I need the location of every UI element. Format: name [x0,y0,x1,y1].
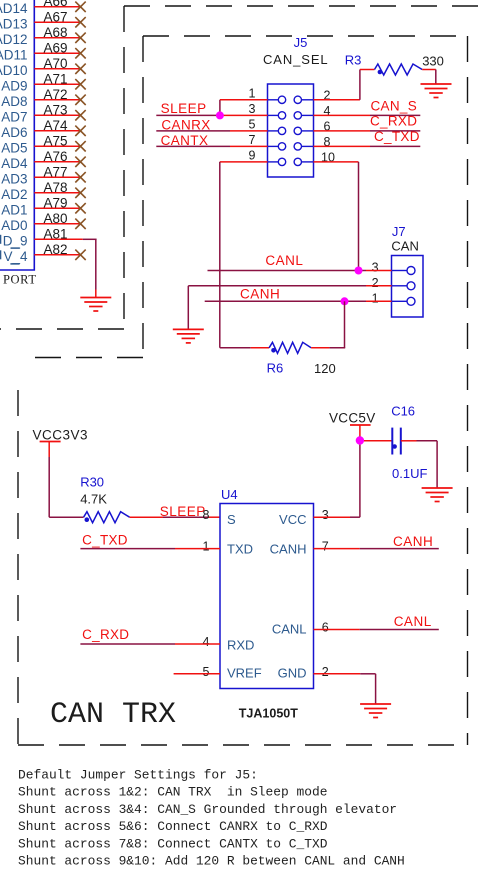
section title CAN TRX [50,698,176,732]
svg-text:C_RXD: C_RXD [370,114,417,129]
no-connect X on A69 [75,48,85,58]
wire CANH from U4 pin 7 [314,548,439,550]
wire pin A73 no-connect stub [34,114,80,116]
svg-text:AD14: AD14 [0,1,28,16]
svg-text:AD7: AD7 [1,109,27,124]
no-connect X on A80 [75,219,85,229]
pin number 6 of J5 [324,119,331,133]
wire J5 pin 2 up to R3 [314,70,375,100]
svg-text:Default Jumper Settings for J5: Default Jumper Settings for J5: [18,768,258,783]
svg-text:1: 1 [249,87,256,101]
wire pin A77 no-connect stub [34,176,80,178]
U4 pin name VREF [227,666,262,681]
svg-text:C_TXD: C_TXD [82,533,128,548]
wire CANH junction down to R6 [344,301,346,348]
wire C_TXD to U4 TXD [80,548,220,550]
svg-text:V_4: V_4 [3,249,28,264]
net label C_TXD [374,129,420,144]
svg-text:8: 8 [203,508,210,522]
wire VCC5V down to U4 VCC [314,436,360,517]
wire R30 to U4 pin S [130,516,220,518]
pin number label A81 [43,226,67,241]
net label CANH at U4 [393,534,433,549]
resistor R6 [269,342,311,353]
section border: outer CAN block top edge [124,5,490,7]
wire pin A67 no-connect stub [34,21,80,23]
wire SLEEP to J5 pins 1 and 3 [156,100,267,116]
pin number label A72 [43,87,67,102]
wire CANTX to J5 pin 7 [156,145,267,147]
section border: right edge shared by CAN_SEL and CAN TRX blocks [467,36,469,745]
label PORT [3,273,37,287]
wire CANRX to J5 pin 5 [156,130,267,132]
connector J7 body [392,256,424,318]
wire CANL from U4 pin 6 [314,629,439,631]
svg-text:A69: A69 [43,40,67,55]
net label CANRX [161,117,210,132]
svg-text:4: 4 [203,635,210,649]
ground at U4 GND [360,704,391,718]
U4 value TJA1050T [239,707,298,721]
svg-text:J5: J5 [294,35,308,50]
pin name AD11 (PORT pin A69) [0,47,28,62]
svg-text:Shunt across 5&6: Connect CANR: Shunt across 5&6: Connect CANRX to C_RXD [18,819,328,834]
wire pin A72 no-connect stub [34,99,80,101]
svg-text:AD10: AD10 [0,63,28,78]
U4 pin name CANL [272,622,307,637]
svg-text:PORT: PORT [3,273,37,287]
svg-text:A71: A71 [43,71,67,86]
pin number 1 of J5 [249,87,256,101]
section border: outer CAN block left edge [123,6,125,329]
svg-text:S: S [227,512,236,527]
svg-text:A66: A66 [43,0,67,9]
resistor R30 designator [80,475,104,490]
power symbol VCC3V3 [33,428,89,458]
svg-text:3: 3 [372,261,379,275]
wire pin A68 no-connect stub [34,37,80,39]
svg-text:A82: A82 [43,242,67,257]
svg-text:Shunt across 7&8: Connect CANT: Shunt across 7&8: Connect CANTX to C_TXD [18,836,328,851]
svg-text:VCC: VCC [279,512,306,527]
capacitor C16 [392,428,401,455]
net label C_RXD at U4 [82,627,129,642]
svg-text:CANH: CANH [270,542,307,557]
wire CANL to J7 pin 3 [208,270,392,272]
svg-text:GND: GND [278,666,307,681]
svg-text:R3: R3 [345,53,362,68]
U4 pin name RXD [227,638,254,653]
net label SLEEP [161,101,207,116]
svg-text:AD11: AD11 [0,47,28,62]
stray clipped label underscore below 3V_4 [10,263,19,265]
svg-text:CANRX: CANRX [161,117,210,132]
svg-text:A81: A81 [43,226,67,241]
resistor R3 value 330 [422,54,444,69]
svg-text:2: 2 [322,665,329,679]
power symbol VCC5V [329,411,376,437]
connector J7 value CAN [391,239,418,254]
section border: outer CAN block bottom edge [0,328,124,330]
section border: inner CAN_SEL block bottom edge [31,357,143,359]
net label C_RXD [370,114,417,129]
junction dot SLEEP [216,111,224,119]
pin name AD14 (PORT pin A66) [0,1,28,16]
pin number 3 of U4 [322,508,329,522]
svg-text:AD4: AD4 [1,156,28,171]
ground at R3 [421,84,452,98]
ground at C16 [422,488,453,502]
wire pin A79 no-connect stub [34,207,80,209]
pin number label A76 [43,149,67,164]
svg-text:A68: A68 [43,25,67,40]
pin name AD5 (PORT pin A75) [1,140,27,155]
svg-text:0.1UF: 0.1UF [392,466,427,481]
svg-text:A79: A79 [43,195,67,210]
resistor R30 value 4.7K [80,492,107,507]
svg-text:CAN_S: CAN_S [371,98,418,113]
pin name AD6 (PORT pin A74) [1,125,27,140]
ground at J7 pin 2 [173,329,204,343]
resistor R3 [375,64,423,75]
pin name AD7 (PORT pin A73) [1,109,27,124]
section border: CAN TRX block left edge [17,390,19,745]
wire pin A80 no-connect stub [34,223,80,225]
svg-text:1: 1 [203,540,210,554]
no-connect X on A78 [75,188,85,198]
svg-text:2: 2 [372,276,379,290]
svg-text:AD0: AD0 [1,218,27,233]
pin number 1 of U4 [203,540,210,554]
no-connect X on A79 [75,203,85,213]
no-connect X on A76 [75,157,85,167]
pin number label A79 [43,195,67,210]
svg-text:3: 3 [249,102,256,116]
section border: CAN TRX block bottom edge [18,744,468,746]
svg-text:5: 5 [249,118,256,132]
svg-text:A74: A74 [43,118,68,133]
svg-text:D_9: D_9 [3,233,28,248]
connector J5 designator [294,35,308,50]
pin number 9 of J5 [249,149,256,163]
pin number label A73 [43,102,67,117]
svg-text:3: 3 [322,508,329,522]
no-connect X on A74 [75,126,85,136]
svg-text:A67: A67 [43,9,67,24]
svg-text:A80: A80 [43,211,67,226]
wire VCC3V3 down to R30 [49,457,83,517]
pin number 2 of U4 [322,665,329,679]
wire pin A82 no-connect stub [34,254,80,256]
svg-text:CAN TRX: CAN TRX [50,698,176,732]
pin number label A67 [43,9,67,24]
U4 pin name GND [278,666,307,681]
svg-text:AD9: AD9 [1,78,27,93]
svg-text:VCC5V: VCC5V [329,411,376,426]
ground below PORT [80,298,111,312]
svg-text:Shunt across 9&10: Add 120 R b: Shunt across 9&10: Add 120 R between CAN… [18,854,405,869]
no-connect X on A66 [75,2,85,12]
net label CANTX [161,133,209,148]
svg-text:AD1: AD1 [1,202,27,217]
wire R6 right leg [311,347,345,349]
pin number label A78 [43,180,67,195]
U4 pin name VCC [279,512,306,527]
wire J7 pin 2 to ground [188,286,391,330]
pin name AD4 (PORT pin A76) [1,156,28,171]
pin number 2 of J7 [372,276,379,290]
pin name AD13 (PORT pin A67) [0,16,28,31]
wire C_TXD from J5 pin 8 [314,145,421,147]
resistor R6 designator [267,361,284,376]
connector PORT body [0,0,34,270]
capacitor C16 designator [391,404,415,419]
svg-text:AD13: AD13 [0,16,28,31]
pin number 4 of U4 [203,635,210,649]
pin name AD12 (PORT pin A68) [0,32,28,47]
svg-text:CANH: CANH [393,534,433,549]
resistor R30 [84,512,130,523]
pin name AD10 (PORT pin A70) [0,63,28,78]
wire pin A66 no-connect stub [34,6,80,8]
wire pin A78 no-connect stub [34,192,80,194]
svg-text:AD2: AD2 [1,187,27,202]
pin name AD8 (PORT pin A72) [1,94,27,109]
pin number label A70 [43,56,67,71]
wire J5 pin 10 down to CANL [314,162,359,271]
svg-text:CAN: CAN [391,239,418,254]
no-connect X on A70 [75,64,85,74]
svg-text:C_RXD: C_RXD [82,627,129,642]
net label CANL at U4 [394,614,432,629]
no-connect X on A75 [75,141,85,151]
junction dot CANL [355,267,363,275]
pin name AD3 (PORT pin A77) [1,171,27,186]
connector J7 designator [392,224,406,239]
svg-text:4.7K: 4.7K [80,492,107,507]
op-amp/transceiver U4 designator [221,487,238,502]
svg-text:C_TXD: C_TXD [374,129,420,144]
no-connect X on A77 [75,172,85,182]
svg-text:R30: R30 [80,475,104,490]
pin number label A77 [43,164,67,179]
pin number 6 of U4 [322,621,329,635]
svg-text:330: 330 [422,54,444,69]
capacitor C16 value 0.1UF [392,466,427,481]
pin number 10 of J5 [321,150,335,164]
wire C_RXD to U4 RXD [80,643,220,645]
pin number label A80 [43,211,67,226]
no-connect X on A68 [75,33,85,43]
connector J5 body [268,84,314,177]
pin number 5 of J5 [249,118,256,132]
resistor R3 designator [345,53,362,68]
svg-text:AD6: AD6 [1,125,27,140]
net label C_TXD at U4 [82,533,128,548]
resistor R6 value 120 [314,361,336,376]
pin name AD0 (PORT pin A80) [1,218,27,233]
no-connect X on A82 [75,250,85,260]
pin number label A71 [43,71,67,86]
net label CANH [240,287,280,302]
no-connect X on A67 [75,17,85,27]
wire VREF stub [174,673,220,675]
U4 pin name CANH [270,542,307,557]
no-connect X on A72 [75,95,85,105]
pin name V_4 (PORT pin A82) [0,249,28,264]
wire U4 GND to ground [314,674,376,704]
pin number label A68 [43,25,67,40]
svg-text:A76: A76 [43,149,67,164]
wire J5 pin 9 down to R6 [220,162,268,348]
svg-text:7: 7 [322,540,329,554]
wire pin A70 no-connect stub [34,68,80,70]
junction dot CANH [341,297,349,305]
no-connect X on A71 [75,79,85,89]
wire pin A75 no-connect stub [34,145,80,147]
svg-text:7: 7 [249,133,256,147]
wire pin A76 no-connect stub [34,161,80,163]
pin number 3 of J7 [372,261,379,275]
net label CANL [265,253,303,268]
pin number label A75 [43,133,67,148]
wire VCC5V junction to C16 [364,440,392,442]
wire R3 to ground [422,70,436,85]
svg-text:A70: A70 [43,56,67,71]
svg-text:Shunt across 3&4: CAN_S Ground: Shunt across 3&4: CAN_S Grounded through… [18,802,397,817]
svg-text:A78: A78 [43,180,67,195]
svg-text:AD5: AD5 [1,140,27,155]
svg-text:AD12: AD12 [0,32,28,47]
wire R6 left leg [220,347,269,349]
pin name AD9 (PORT pin A71) [1,78,27,93]
U4 pin name S [227,512,236,527]
net label SLEEP at R30 [160,504,206,519]
svg-text:R6: R6 [267,361,284,376]
svg-text:1: 1 [372,291,379,305]
svg-text:CANL: CANL [265,253,303,268]
wire pin A71 no-connect stub [34,83,80,85]
wire CAN_S from J5 pin 4 [314,114,421,116]
svg-text:CANL: CANL [272,622,307,637]
pin number label A82 [43,242,67,257]
wire net A81 to ground [34,239,96,297]
net label CAN_S [371,98,418,113]
svg-text:CANH: CANH [240,287,280,302]
pin number 2 of J5 [324,88,331,102]
svg-text:CANL: CANL [394,614,432,629]
svg-text:U4: U4 [221,487,238,502]
svg-text:J7: J7 [392,224,406,239]
svg-text:A72: A72 [43,87,67,102]
pin number 7 of U4 [322,540,329,554]
pin name AD2 (PORT pin A78) [1,187,27,202]
pin name AD1 (PORT pin A79) [1,202,27,217]
svg-text:A77: A77 [43,164,67,179]
svg-text:120: 120 [314,361,336,376]
svg-text:AD8: AD8 [1,94,27,109]
pin number 8 of U4 [203,508,210,522]
pin name D_9 (PORT pin A81) [0,233,28,248]
pin number 8 of J5 [324,135,331,149]
svg-text:VCC3V3: VCC3V3 [33,428,89,443]
pin number 3 of J5 [249,102,256,116]
wire pin A69 no-connect stub [34,52,80,54]
svg-text:SLEEP: SLEEP [161,101,207,116]
svg-text:AD3: AD3 [1,171,27,186]
pin number label A69 [43,40,67,55]
jumper settings note text [18,768,405,869]
wire C16 to ground [401,441,437,488]
section border: inner CAN_SEL block top edge [143,35,468,37]
svg-text:6: 6 [322,621,329,635]
svg-text:TJA1050T: TJA1050T [239,707,298,721]
svg-text:A73: A73 [43,102,67,117]
svg-text:5: 5 [203,665,210,679]
svg-text:A75: A75 [43,133,67,148]
pin number 1 of J7 [372,291,379,305]
wire C_RXD from J5 pin 6 [314,130,421,132]
pin number label A74 [43,118,68,133]
pin number 4 of J5 [324,104,331,118]
svg-text:RXD: RXD [227,638,254,653]
wire CANH to J7 pin 1 [205,300,392,302]
junction dot VCC5V [356,436,364,444]
stray clipped label underscore above 3V_4 [11,247,20,249]
wire pin A74 no-connect stub [34,130,80,132]
U4 pin name TXD [227,542,253,557]
svg-text:9: 9 [249,149,256,163]
no-connect X on A73 [75,110,85,120]
pin number 7 of J5 [249,133,256,147]
svg-text:VREF: VREF [227,666,262,681]
svg-text:C16: C16 [391,404,415,419]
pin number 5 of U4 [203,665,210,679]
svg-text:CAN_SEL: CAN_SEL [263,52,329,67]
svg-text:Shunt across 1&2: CAN TRX in: Shunt across 1&2: CAN TRX in Sleep mode [18,785,327,800]
section border: inner CAN_SEL block left edge [142,36,144,358]
connector J5 value CAN_SEL [263,52,329,67]
transceiver U4 body [220,504,314,689]
pin number label A66 [43,0,67,9]
svg-text:TXD: TXD [227,542,253,557]
